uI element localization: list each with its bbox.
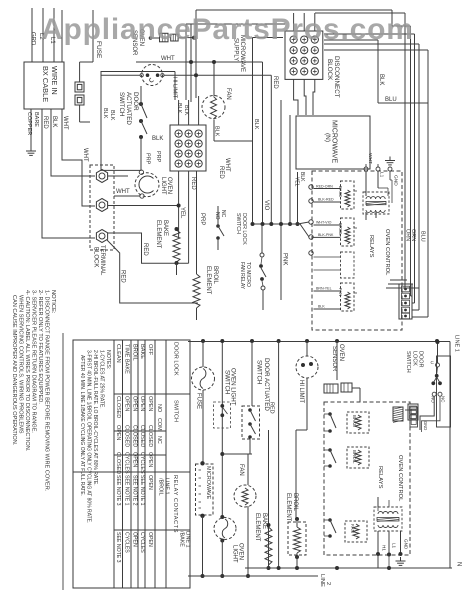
svg-text:RELAYS: RELAYS	[368, 235, 374, 258]
svg-text:BARE: BARE	[33, 112, 39, 127]
svg-text:SWITCH: SWITCH	[173, 400, 179, 422]
svg-text:RED: RED	[218, 166, 224, 179]
svg-text:FAN: FAN	[338, 288, 343, 296]
svg-text:CYCLES: CYCLES	[139, 452, 145, 474]
svg-text:BAKE: BAKE	[139, 344, 145, 359]
svg-text:DISCONNECT: DISCONNECT	[333, 56, 340, 98]
svg-text:BAKE: BAKE	[261, 513, 267, 529]
svg-text:BROIL: BROIL	[292, 493, 298, 512]
svg-text:AppliancePartsPros.com: AppliancePartsPros.com	[41, 13, 414, 46]
svg-text:BLK-RED: BLK-RED	[318, 198, 334, 202]
svg-text:DOOR LOCK: DOOR LOCK	[173, 342, 179, 376]
svg-text:LOCK: LOCK	[412, 351, 418, 366]
svg-text:LIGHT: LIGHT	[160, 177, 166, 195]
svg-text:OPEN: OPEN	[132, 396, 138, 411]
svg-text:YEL: YEL	[294, 177, 300, 187]
svg-text:BLK: BLK	[318, 305, 325, 309]
svg-text:NO: NO	[431, 396, 436, 403]
svg-text:CYCLES: CYCLES	[139, 532, 145, 553]
svg-text:CLOSED: CLOSED	[115, 396, 121, 418]
svg-text:(N): (N)	[324, 133, 331, 142]
svg-text:PRP: PRP	[145, 153, 151, 165]
svg-text:MICROWAVE: MICROWAVE	[205, 466, 211, 500]
svg-text:ACTUATED: ACTUATED	[125, 92, 132, 125]
svg-text:WHT: WHT	[116, 189, 130, 195]
svg-text:CLOSED: CLOSED	[139, 425, 145, 447]
svg-text:GND: GND	[404, 539, 409, 550]
svg-text:NC: NC	[220, 210, 226, 218]
svg-text:OPEN: OPEN	[147, 452, 153, 467]
svg-text:WHT-VIO: WHT-VIO	[316, 221, 332, 225]
svg-text:BAKE: BAKE	[162, 220, 168, 236]
svg-text:BLK: BLK	[152, 136, 163, 142]
svg-text:SEE NOTE 1: SEE NOTE 1	[124, 475, 130, 506]
svg-text:BLK: BLK	[51, 116, 57, 127]
svg-text:RELAYS: RELAYS	[377, 466, 383, 489]
svg-text:WHT: WHT	[62, 116, 68, 130]
svg-text:2- REFER ONLY TO FEATURES EQUI: 2- REFER ONLY TO FEATURES EQUIPPED.	[37, 290, 43, 404]
svg-text:SWITCH: SWITCH	[224, 370, 231, 394]
svg-text:CLEAN: CLEAN	[115, 344, 121, 363]
svg-text:FAN: FAN	[225, 88, 231, 100]
svg-text:BLOCK: BLOCK	[93, 247, 99, 267]
svg-text:FAN RELAY: FAN RELAY	[239, 262, 245, 290]
svg-text:OPEN: OPEN	[139, 396, 145, 411]
svg-text:RED: RED	[272, 76, 278, 89]
svg-text:OPEN: OPEN	[124, 396, 130, 411]
svg-text:SEE NOTE 2: SEE NOTE 2	[132, 475, 138, 506]
svg-text:OPEN: OPEN	[132, 532, 138, 547]
svg-text:CLOSED: CLOSED	[147, 425, 153, 447]
svg-text:WHEN SERVICING CONTROLS. WIRIN: WHEN SERVICING CONTROLS. WIRING PROBLEMS	[18, 295, 24, 434]
svg-text:OVEN CONTROL: OVEN CONTROL	[384, 229, 390, 276]
svg-text:FAN: FAN	[350, 524, 355, 533]
svg-text:PRP: PRP	[199, 213, 205, 225]
svg-text:LINE: LINE	[319, 574, 325, 587]
svg-text:CLOSED: CLOSED	[132, 425, 138, 447]
svg-text:BLK-PNK: BLK-PNK	[318, 233, 334, 237]
svg-text:OPEN: OPEN	[147, 532, 153, 547]
svg-text:OFF: OFF	[147, 344, 153, 356]
svg-text:BROIL: BROIL	[212, 266, 218, 285]
svg-text:CAN CAUSE IMPROPER AND DANGERO: CAN CAUSE IMPROPER AND DANGEROUS OPERATI…	[11, 295, 17, 446]
svg-text:WHT: WHT	[82, 148, 88, 162]
svg-text:1-CYCLES AT 25% RATE.: 1-CYCLES AT 25% RATE.	[99, 350, 105, 409]
svg-text:RED: RED	[120, 270, 126, 283]
svg-text:TIME BAKE: TIME BAKE	[124, 344, 130, 374]
svg-text:HI LIMIT: HI LIMIT	[172, 77, 178, 99]
svg-text:4- CAUTION: LABEL ALL WIRES PR: 4- CAUTION: LABEL ALL WIRES PRIOR TO DIS…	[24, 290, 30, 452]
svg-text:/BAKE: /BAKE	[179, 531, 185, 547]
svg-text:NOTICE:: NOTICE:	[50, 290, 56, 314]
svg-text:YEL: YEL	[179, 207, 185, 219]
svg-text:2: 2	[325, 582, 331, 585]
svg-text:SWITCH: SWITCH	[256, 360, 263, 384]
svg-text:COPPER: COPPER	[26, 112, 32, 135]
svg-text:BLK: BLK	[109, 110, 115, 121]
svg-text:SENSOR: SENSOR	[331, 346, 337, 372]
svg-text:PRP: PRP	[155, 151, 161, 163]
svg-text:AFTER 40 MIN. LINE 1/BAKE CYCL: AFTER 40 MIN. LINE 1/BAKE CYCLING ONLY A…	[79, 355, 85, 496]
svg-text:WHT: WHT	[367, 153, 373, 164]
svg-text:TERMINAL: TERMINAL	[99, 245, 105, 276]
svg-text:SEE NOTE 3: SEE NOTE 3	[115, 532, 121, 563]
svg-text:L1: L1	[392, 543, 397, 549]
svg-text:L1: L1	[379, 172, 385, 178]
svg-text:BX CABLE: BX CABLE	[41, 66, 50, 102]
svg-text:BLU: BLU	[385, 97, 397, 103]
svg-text:PNK: PNK	[282, 253, 288, 265]
svg-text:BROIL: BROIL	[352, 450, 357, 464]
svg-text:HI LIMIT: HI LIMIT	[298, 380, 304, 403]
svg-text:CLOSED: CLOSED	[124, 425, 130, 447]
svg-text:2-HI BROIL-FULL RATE. LO BROIL: 2-HI BROIL-FULL RATE. LO BROIL-CYCLES AT…	[92, 350, 98, 486]
svg-text:RED: RED	[190, 177, 196, 190]
svg-text:ORN: ORN	[410, 229, 416, 241]
svg-text:3-FIRST 40 MIN. LINE 1/BROIL O: 3-FIRST 40 MIN. LINE 1/BROIL OPERATING O…	[86, 350, 92, 523]
svg-text:VIO: VIO	[263, 200, 269, 211]
svg-text:WHT: WHT	[161, 56, 175, 62]
svg-text:H1: H1	[382, 545, 387, 551]
svg-text:/BROIL: /BROIL	[158, 478, 164, 496]
svg-text:RELAY CONTACTS: RELAY CONTACTS	[172, 475, 178, 533]
svg-text:ELEMENT: ELEMENT	[254, 513, 260, 542]
svg-text:SEE NOTE 3: SEE NOTE 3	[115, 475, 121, 506]
svg-text:ORN: ORN	[405, 229, 411, 241]
svg-text:OPEN: OPEN	[147, 475, 153, 490]
svg-text:NOTES:: NOTES:	[105, 350, 111, 369]
svg-text:SWITCH: SWITCH	[235, 213, 241, 234]
svg-text:BAKE: BAKE	[352, 415, 357, 427]
svg-text:RED: RED	[142, 243, 148, 256]
svg-text:NO: NO	[156, 404, 162, 412]
svg-text:SEE NOTE 1: SEE NOTE 1	[139, 475, 145, 506]
svg-text:RED: RED	[269, 402, 275, 414]
svg-text:N: N	[456, 562, 462, 566]
svg-text:ELEMENT: ELEMENT	[205, 266, 211, 295]
svg-text:GND: GND	[393, 175, 399, 186]
svg-text:WIRE IN: WIRE IN	[50, 66, 59, 95]
svg-text:CYCLES: CYCLES	[124, 532, 130, 553]
svg-text:GRD: GRD	[30, 32, 36, 46]
svg-text:CLOSED: CLOSED	[115, 452, 121, 474]
svg-text:OVEN: OVEN	[338, 344, 344, 361]
svg-text:CYCLES: CYCLES	[124, 452, 130, 474]
svg-text:OVEN CONTROL: OVEN CONTROL	[397, 455, 403, 502]
svg-text:1- DISCONNECT RANGE FROM POWER: 1- DISCONNECT RANGE FROM POWER BEFORE RE…	[44, 290, 50, 492]
svg-text:FAN: FAN	[238, 464, 244, 476]
svg-text:BLOCK: BLOCK	[326, 59, 333, 81]
svg-text:WHT: WHT	[224, 158, 230, 172]
svg-text:ELEMENT: ELEMENT	[285, 493, 291, 522]
svg-text:NO: NO	[214, 212, 220, 220]
svg-text:BLK: BLK	[253, 119, 259, 130]
svg-text:OPEN: OPEN	[115, 425, 121, 440]
svg-text:BROIL: BROIL	[132, 344, 138, 361]
svg-text:COM: COM	[156, 418, 162, 431]
svg-text:BLU: BLU	[420, 231, 426, 242]
svg-text:BRN-YEL: BRN-YEL	[316, 287, 332, 291]
svg-text:RED: RED	[42, 116, 48, 129]
svg-text:LINE 1: LINE 1	[454, 335, 460, 352]
svg-text:ELEMENT: ELEMENT	[155, 220, 161, 249]
svg-text:FUSE: FUSE	[196, 393, 202, 409]
svg-text:3- SERVICER PLEASE RETURN DIAG: 3- SERVICER PLEASE RETURN DIAGRAM TO RAN…	[31, 290, 37, 433]
svg-text:OPEN: OPEN	[132, 452, 138, 467]
svg-text:OPEN: OPEN	[147, 396, 153, 411]
svg-text:LIGHT: LIGHT	[232, 545, 238, 563]
svg-text:BAKE: BAKE	[338, 186, 343, 197]
svg-text:BLK: BLK	[102, 108, 108, 119]
svg-text:BLK: BLK	[378, 74, 384, 85]
svg-text:RED-ORN: RED-ORN	[316, 185, 333, 189]
svg-text:GND: GND	[423, 421, 428, 430]
svg-text:SWITCH: SWITCH	[118, 92, 125, 116]
svg-text:NC: NC	[441, 396, 446, 403]
svg-text:SWITCH: SWITCH	[405, 351, 411, 373]
svg-text:DOOR: DOOR	[132, 92, 139, 111]
svg-text:NC: NC	[156, 436, 162, 444]
